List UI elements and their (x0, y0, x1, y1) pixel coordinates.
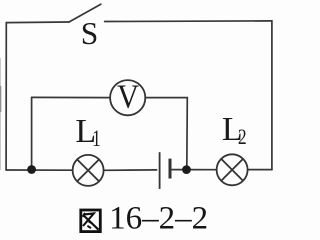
battery cell short plate (-) (169, 159, 172, 179)
wire L2 to node B (187, 169, 217, 171)
scan artifact left edge (0, 58, 1, 170)
node B junction dot (182, 165, 191, 174)
svg-text:16–2–2: 16–2–2 (109, 201, 208, 237)
wire battery to L1 (104, 169, 157, 171)
switch S blade (69, 4, 101, 22)
battery cell long plate (+) (159, 152, 161, 189)
wire voltmeter branch right vertical (186, 98, 189, 170)
lamp L2 (217, 154, 248, 185)
lamp L1 (73, 155, 104, 186)
wire top-left (6, 21, 69, 24)
wire top-right (105, 20, 272, 23)
svg-text:S: S (81, 16, 99, 51)
wire node B to battery (172, 169, 187, 171)
wire left vertical (5, 23, 7, 170)
wire voltmeter branch left vertical (31, 97, 33, 169)
svg-text:V: V (117, 77, 139, 115)
wire voltmeter branch top-left (32, 96, 110, 98)
svg-text:1: 1 (92, 127, 101, 152)
wire bottom-right (248, 169, 272, 171)
caption 图 (drawn glyph) (81, 210, 101, 232)
node A junction dot (27, 165, 36, 174)
wire L1 to left corner (6, 169, 72, 171)
voltmeter U1 circle (110, 80, 145, 115)
wire voltmeter branch top-right (146, 97, 188, 99)
svg-text:2: 2 (238, 125, 247, 149)
wire right vertical (271, 21, 273, 170)
